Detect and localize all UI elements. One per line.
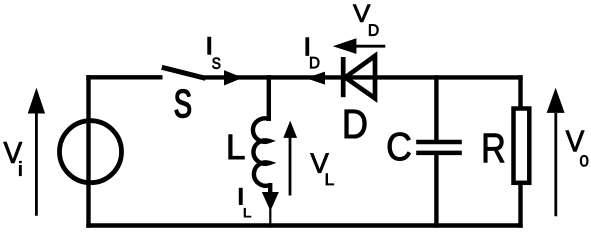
label Vi: V bbox=[4, 142, 22, 163]
wire inductor bottom lead (coil to IL arrow) bbox=[268, 183, 272, 198]
capacitor C top plate bbox=[416, 140, 462, 145]
current arrow IS bbox=[224, 70, 243, 85]
label VD: subscript D bbox=[369, 24, 378, 35]
wire capacitor top lead bbox=[434, 75, 438, 142]
label Vi: subscript i bbox=[19, 161, 21, 175]
wire inductor top lead / node between S and D bbox=[267, 75, 271, 121]
current arrow IL bbox=[262, 192, 279, 211]
diode D triangle (anode right, pointing left) bbox=[345, 56, 375, 98]
diode D cathode bar bbox=[341, 57, 346, 97]
capacitor C bottom plate bbox=[416, 151, 462, 156]
label IS: subscript S bbox=[212, 58, 220, 69]
wire inductor bottom lead (thin continuation below IL arrow tip) bbox=[269, 205, 271, 228]
label ID: I bbox=[306, 38, 309, 56]
wire top rail left segment (source to switch) bbox=[86, 75, 162, 79]
inductor L coil bbox=[253, 118, 270, 185]
arrow Vo (output voltage) bbox=[547, 88, 565, 217]
wire right vertical (load branch) bbox=[518, 75, 522, 228]
label Vo: V bbox=[566, 131, 584, 152]
label VL: subscript L bbox=[326, 174, 334, 185]
label C (capacitor) bbox=[388, 133, 411, 161]
wire left vertical (source branch) bbox=[86, 75, 90, 228]
label Vo: subscript o bbox=[580, 155, 588, 166]
label VL: V bbox=[310, 153, 328, 172]
label IL: I bbox=[239, 188, 242, 204]
resistor R box bbox=[514, 109, 530, 183]
label ID: subscript D bbox=[310, 57, 319, 68]
wire top rail right segment (switch to diode to output corner) bbox=[203, 75, 523, 79]
wire capacitor bottom lead bbox=[434, 151, 438, 228]
arrow Vi (input voltage) bbox=[28, 88, 45, 216]
label IS: I bbox=[208, 37, 211, 54]
label IL: subscript L bbox=[244, 208, 251, 217]
label VD: V bbox=[353, 5, 370, 22]
label L (inductor) bbox=[229, 135, 245, 159]
voltage source Vi circle bbox=[60, 121, 122, 183]
switch S blade bbox=[162, 67, 206, 78]
label S (switch) bbox=[175, 90, 191, 118]
arrow VL (inductor voltage) bbox=[283, 121, 297, 196]
label R (resistor) bbox=[484, 134, 504, 163]
arrow VD (diode voltage) bbox=[333, 38, 386, 54]
wire bottom rail bbox=[86, 223, 522, 227]
label D (diode) bbox=[345, 110, 366, 138]
current arrow ID bbox=[306, 72, 325, 85]
